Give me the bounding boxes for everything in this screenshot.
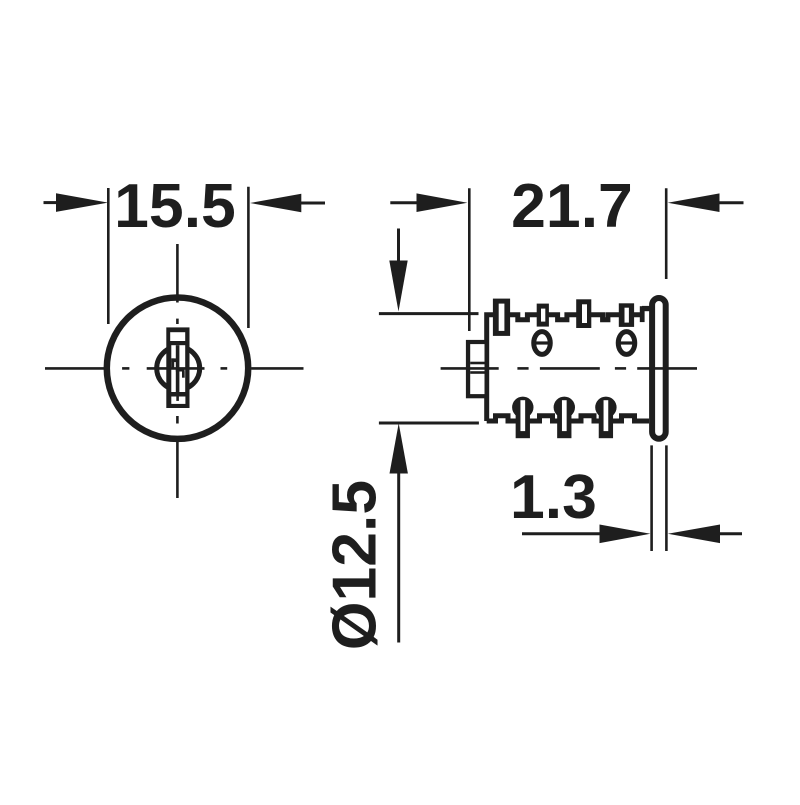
bottom pin 1 <box>512 397 533 418</box>
pin 2 <box>537 304 549 327</box>
dimension 15.5 right arrow <box>250 194 301 213</box>
keyway profile left tab <box>171 358 174 368</box>
dimension 21.7 right arrow <box>668 193 720 212</box>
cylinder plug circle <box>157 347 200 390</box>
front view horizontal centerline <box>45 367 304 370</box>
dimension 1.3 extension line left <box>650 445 653 551</box>
side view bottom face with jogs <box>487 416 649 421</box>
dimension 21.7 extension line left <box>468 188 471 331</box>
side view horizontal centerline <box>441 367 697 370</box>
svg-text:21.7: 21.7 <box>511 171 633 241</box>
pin 3 <box>576 299 591 328</box>
keyway outer block <box>166 327 189 408</box>
flange capsule <box>652 298 666 439</box>
pin 4 <box>619 303 634 327</box>
dimension 21.7 left arrow <box>390 201 417 204</box>
bottom pin 3 <box>595 397 616 418</box>
keyway profile right tab <box>182 371 185 377</box>
side view riser to flange lip <box>640 306 645 322</box>
dimension 15.5 extension line right <box>247 187 250 328</box>
dimension 21.7 extension line right <box>665 188 668 279</box>
bottom pin 2 <box>554 397 575 418</box>
keyway profile right jog <box>176 369 185 372</box>
keyway center dash bit <box>176 397 179 401</box>
dimension 15.5 left arrow <box>44 201 58 204</box>
dimension 1.3 extension line right <box>665 445 668 551</box>
cylinder housing circle (front view) <box>107 298 248 439</box>
svg-text:15.5: 15.5 <box>114 171 236 241</box>
keyway main white interior <box>171 345 185 392</box>
dimension 12.5 lower arrow <box>390 423 408 473</box>
keyway profile left tab arm <box>171 358 176 362</box>
keyway bottom white box <box>171 397 185 404</box>
dimension 12.5 top extension line <box>379 312 479 315</box>
front view vertical centerline <box>176 244 179 498</box>
pin 1 <box>493 299 510 336</box>
cam protrusion inner white <box>470 344 484 394</box>
dimension 12.5 bottom extension line <box>379 422 479 425</box>
keyway top white box <box>170 332 185 341</box>
keyway profile center bar <box>176 345 180 392</box>
dimension 15.5 extension line left <box>107 188 110 324</box>
screw head 2 <box>618 332 635 355</box>
cam protrusion outer <box>466 340 489 398</box>
screw head 1 <box>534 332 551 355</box>
svg-text:Ø12.5: Ø12.5 <box>320 480 390 650</box>
dimension 1.3 right arrow <box>668 525 720 544</box>
cam protrusion inner lines <box>470 362 484 365</box>
dimension 12.5 upper arrow <box>397 229 400 262</box>
side view body left edge and top face with notches <box>487 315 642 421</box>
dimension 1.3 left arrow <box>522 532 600 535</box>
svg-text:1.3: 1.3 <box>510 462 597 532</box>
side view flange lip <box>642 306 651 311</box>
